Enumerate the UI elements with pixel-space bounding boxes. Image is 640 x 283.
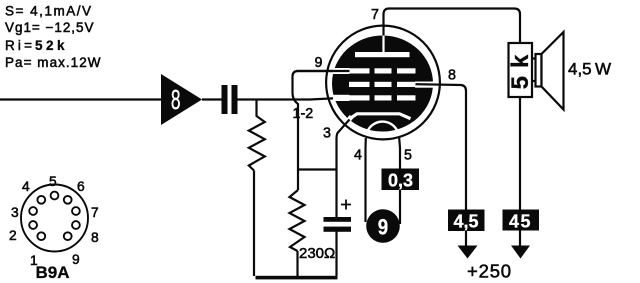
svg-text:8: 8 (171, 84, 181, 115)
socket pin 8 (72, 221, 80, 229)
svg-text:4: 4 (22, 179, 30, 194)
socket pin 6 (64, 196, 72, 204)
anode lead inside tube (382, 36, 384, 54)
bypass capacitor C2 top plate (324, 217, 352, 222)
grid row3 left channel (333, 95, 350, 101)
socket pin 9 (64, 232, 72, 240)
svg-text:Ri=: Ri= (5, 38, 32, 53)
svg-text:52k: 52k (35, 38, 65, 53)
svg-text:45: 45 (509, 212, 532, 232)
tube V1 interior disc (332, 36, 433, 132)
anode current box 4,5 (448, 210, 485, 232)
socket pin 3 (29, 207, 37, 215)
coupling capacitor C1 plate 2 (232, 85, 238, 114)
speaker connector top (532, 57, 536, 59)
cathode electrode (349, 114, 411, 120)
svg-text:3: 3 (11, 205, 19, 220)
socket pin 2 (29, 221, 37, 229)
svg-text:Vg1= −12,5V: Vg1= −12,5V (5, 20, 94, 35)
tube V1 envelope outline (326, 26, 440, 140)
svg-text:6: 6 (77, 179, 85, 194)
svg-text:230Ω: 230Ω (299, 245, 335, 262)
svg-text:2: 2 (9, 228, 17, 243)
svg-text:3: 3 (323, 126, 331, 142)
grid row2 right channel (415, 82, 434, 88)
grid row1 dashes (349, 68, 370, 73)
screen current box 45 (503, 210, 540, 231)
socket pin 4 (37, 196, 45, 204)
heater voltage circle 9 (366, 209, 400, 243)
socket B9A outline (21, 185, 88, 252)
svg-text:7: 7 (371, 7, 379, 23)
svg-text:S= 4,1mA/V: S= 4,1mA/V (5, 4, 91, 19)
anode current arrow (458, 246, 478, 259)
heater pin 4 wire (364, 138, 366, 222)
svg-text:5: 5 (49, 174, 57, 189)
socket pin 7 (72, 207, 80, 215)
svg-text:+250: +250 (467, 261, 512, 282)
transformer wire down (519, 97, 521, 247)
svg-text:9: 9 (378, 216, 388, 240)
heater arch (366, 122, 398, 135)
speaker connector bottom (532, 80, 536, 82)
svg-text:9: 9 (72, 252, 80, 267)
speaker cone (542, 32, 564, 110)
input arrow symbol (161, 74, 202, 125)
svg-text:8: 8 (91, 230, 99, 245)
anode top wire to transformer (384, 9, 521, 44)
svg-text:Pa= max.12W: Pa= max.12W (5, 55, 101, 70)
wire arrow to capacitor (202, 98, 222, 100)
speaker driver (536, 54, 542, 87)
ground rail (256, 276, 338, 280)
wire g3 row1 into tube (296, 70, 350, 72)
svg-text:1-2: 1-2 (293, 106, 314, 122)
svg-text:4,5 W: 4,5 W (568, 60, 611, 79)
cathode pin 3 wire (337, 120, 350, 218)
svg-text:0,3: 0,3 (388, 171, 413, 191)
socket pin 5 (51, 192, 59, 200)
svg-text:4: 4 (354, 148, 362, 164)
heater current box 0,3 (382, 169, 420, 191)
anode plate bar (355, 52, 410, 57)
grid resistor lead to ground (253, 171, 255, 277)
input wire (0, 98, 161, 100)
svg-text:5k: 5k (507, 47, 534, 90)
svg-text:9: 9 (315, 55, 323, 71)
grid row1 left channel (333, 68, 350, 74)
coupling capacitor C1 plate 1 (222, 85, 228, 114)
bypass capacitor lead to ground (335, 231, 337, 276)
svg-text:7: 7 (91, 205, 99, 220)
svg-text:5: 5 (404, 148, 412, 164)
cathode resistor R2 230 ohm (290, 190, 305, 251)
svg-text:8: 8 (448, 68, 456, 84)
cathode resistor lead to ground (296, 251, 298, 276)
svg-text:B9A: B9A (36, 263, 70, 282)
g3 to cathode wire (pin 9 U-link) (293, 71, 350, 190)
grid resistor R1 (249, 100, 265, 171)
cathode lead channel (348, 117, 352, 122)
capacitor plus sign (341, 200, 351, 210)
svg-text:4,5: 4,5 (453, 212, 478, 232)
input arrow label 8 (171, 84, 181, 115)
grid row3 dashes (349, 95, 370, 100)
output transformer 5k box (509, 43, 533, 97)
heater pin 5 wire (398, 138, 401, 224)
screen current arrow (511, 246, 530, 259)
grid signal wire to tube pin 1-2 (238, 98, 350, 100)
cathode junction wire (298, 168, 337, 170)
bypass capacitor C2 bottom plate (324, 227, 352, 232)
grid row2 dashes (349, 82, 370, 87)
wire g2 row2 to pin 8 (416, 84, 467, 247)
socket pin 1 (37, 232, 45, 240)
